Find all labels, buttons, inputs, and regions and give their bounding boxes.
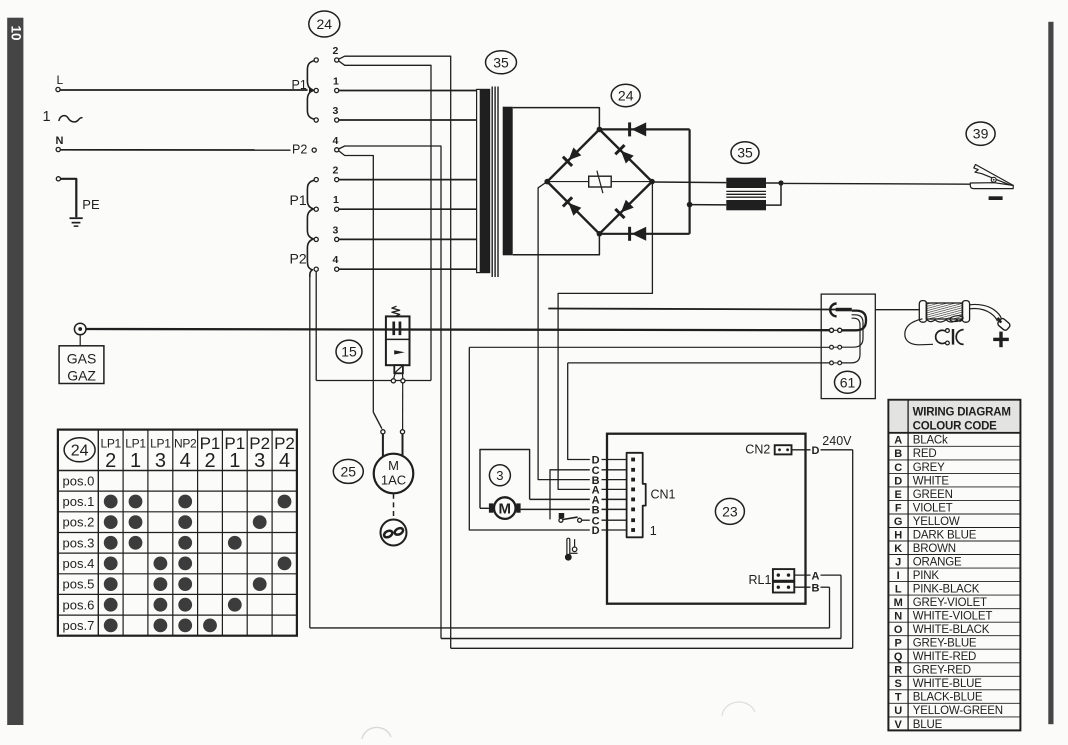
svg-text:3: 3 (155, 450, 166, 472)
wire torch lead (875, 309, 921, 311)
valve solenoid coil (394, 365, 403, 373)
wire secondary top to rectifier (513, 108, 600, 130)
fan motor connector pins (381, 430, 385, 434)
svg-text:pos.0: pos.0 (63, 473, 95, 488)
svg-text:P2: P2 (290, 251, 307, 267)
svg-text:23: 23 (722, 503, 738, 519)
wire A1 black (558, 184, 652, 489)
svg-text:PE: PE (82, 197, 100, 212)
svg-text:RL1: RL1 (749, 573, 772, 587)
svg-text:P1: P1 (292, 78, 307, 92)
switch P2 terminal (312, 148, 316, 152)
page number sidebar (7, 18, 23, 725)
wire to fan motor (switched) (373, 412, 382, 429)
torch cable bundle (842, 311, 866, 331)
svg-text:1: 1 (130, 450, 141, 472)
svg-text:S: S (895, 678, 902, 690)
svg-text:pos.4: pos.4 (63, 556, 95, 571)
wire contact 2' to transformer tap (339, 179, 477, 181)
wire bridge DC link (547, 181, 589, 183)
svg-text:24: 24 (618, 88, 634, 104)
wire RL1-B (794, 586, 810, 588)
svg-text:pos.5: pos.5 (63, 577, 95, 592)
wire trigger row3 (469, 346, 829, 348)
svg-text:Q: Q (894, 651, 903, 663)
wire feed motor loop (480, 450, 530, 509)
svg-text:1: 1 (229, 450, 240, 472)
choke L1 lower winding (726, 200, 766, 210)
wire contact 2 lower branch to gas valve loop (339, 61, 431, 381)
wire bus contact4 to RL1-A (441, 638, 841, 640)
svg-text:COLOUR CODE: COLOUR CODE (913, 420, 998, 432)
svg-text:3: 3 (254, 450, 265, 472)
transformer T1 secondary winding (503, 107, 513, 256)
wire B1 red (538, 182, 590, 480)
wire contact 4 upper branch to relay bus riser (339, 146, 441, 639)
svg-text:H: H (894, 529, 902, 541)
svg-text:GREEN: GREEN (913, 489, 953, 501)
svg-text:61: 61 (840, 374, 856, 390)
wire C2 grey (582, 519, 590, 521)
wire contact 2 upper branch to bus D riser (339, 56, 451, 648)
switch P1 terminals (314, 58, 318, 62)
svg-text:G: G (894, 516, 903, 528)
wire N to switch P2 (60, 149, 290, 151)
transformer core (491, 87, 493, 278)
svg-text:U: U (894, 705, 902, 717)
wire RL1-A (794, 574, 810, 576)
wire valve loop bottom (316, 380, 431, 382)
svg-text:pos.2: pos.2 (63, 515, 95, 530)
svg-text:D: D (592, 525, 600, 537)
svg-text:GREY-BLUE: GREY-BLUE (913, 638, 977, 650)
svg-text:GREY-RED: GREY-RED (913, 665, 971, 677)
motor M2 (wire feed) (494, 497, 516, 519)
svg-text:3: 3 (496, 468, 503, 483)
svg-text:4: 4 (180, 450, 191, 472)
diode D5 (top rail) (628, 122, 631, 136)
ground symbol (70, 217, 83, 219)
wire contact 1' to transformer tap (339, 208, 477, 210)
thermal cutout switch (559, 513, 565, 518)
choke core lines (726, 190, 766, 192)
motor M1 1AC (374, 454, 414, 494)
valve seat bars (392, 322, 395, 336)
wire DC output to choke lower winding (690, 204, 727, 206)
svg-text:N: N (56, 135, 64, 147)
svg-text:pos.3: pos.3 (63, 535, 95, 550)
svg-text:RED: RED (913, 448, 937, 460)
wire D2 white (469, 347, 590, 530)
fan motor leads (382, 434, 384, 458)
wire bridge output rail (688, 129, 690, 233)
svg-text:39: 39 (973, 126, 989, 142)
svg-text:GREY: GREY (913, 462, 945, 474)
ref 24 (table) (64, 438, 95, 462)
rectifier bridge edges (547, 129, 599, 181)
torch trigger ring (950, 315, 964, 322)
svg-text:BROWN: BROWN (913, 543, 956, 555)
svg-text:WHITE-RED: WHITE-RED (913, 651, 976, 663)
svg-text:LP1: LP1 (125, 437, 146, 451)
valve coil terminals (394, 373, 396, 378)
svg-text:WIRING DIAGRAM: WIRING DIAGRAM (913, 406, 1011, 418)
torch trigger switch (936, 330, 946, 343)
node bridge bottom (597, 231, 603, 237)
ref 23 (control board) (715, 498, 744, 524)
svg-text:M: M (499, 501, 512, 518)
wire C1 grey (550, 470, 590, 520)
svg-text:B: B (894, 448, 902, 460)
svg-text:P: P (895, 638, 902, 650)
torch handle (919, 301, 926, 323)
wire contact 4' to transformer tap (339, 268, 477, 270)
wire trigger row4 (568, 362, 830, 364)
svg-text:4: 4 (333, 135, 339, 147)
torch connector pins (832, 329, 840, 331)
ref 61 (torch connector) (835, 371, 861, 393)
svg-text:pos.7: pos.7 (63, 618, 95, 633)
varistor RV1 (589, 176, 612, 187)
thermometer symbol (567, 538, 570, 554)
ref 15 (gas valve) (336, 340, 362, 363)
svg-text:NP2: NP2 (174, 437, 197, 451)
svg-text:4: 4 (333, 254, 339, 266)
wire choke lower out (766, 183, 781, 205)
wire to work clamp (784, 182, 971, 185)
transformer T1 primary winding (477, 89, 490, 272)
svg-text:D: D (812, 445, 820, 457)
svg-text:BLACk: BLACk (913, 435, 948, 447)
svg-text:CN2: CN2 (745, 443, 770, 457)
svg-text:2: 2 (333, 165, 339, 177)
svg-text:M: M (894, 597, 903, 609)
node choke feed (687, 202, 693, 208)
wire secondary bottom to rectifier (513, 234, 600, 255)
svg-text:N: N (894, 611, 902, 623)
svg-text:10: 10 (8, 25, 23, 40)
scan artifact arc (362, 727, 391, 739)
node choke output (778, 180, 783, 185)
control PCB 23 outline (607, 434, 806, 604)
diode D1 (top-left arm) (569, 148, 582, 161)
torch connector box 61 (821, 294, 875, 399)
ref 24 (rectifier) (611, 84, 640, 106)
svg-text:P1: P1 (290, 192, 307, 208)
svg-text:1AC: 1AC (381, 473, 406, 488)
gas valve Y1 body (386, 316, 410, 365)
svg-text:24: 24 (317, 16, 333, 32)
svg-text:3: 3 (333, 224, 339, 236)
wire D1 white (568, 363, 590, 460)
svg-text:35: 35 (493, 54, 509, 70)
svg-text:4: 4 (279, 450, 290, 472)
wire switch tail to relay bus (309, 277, 311, 628)
svg-text:K: K (894, 543, 902, 555)
wire gas inlet stub (79, 335, 81, 346)
valve flow arrow (394, 350, 405, 354)
choke L1 upper winding (726, 178, 766, 188)
torch grip scallops (927, 319, 963, 322)
switch terminals (lower selector) (314, 178, 318, 182)
svg-text:A: A (894, 435, 902, 447)
wire contact 4 lower branch to fan motor (339, 151, 374, 413)
wire bridge top rail (599, 128, 689, 130)
CN1 pins (631, 458, 635, 462)
svg-text:LP1: LP1 (100, 437, 121, 451)
wire A2 black (530, 498, 590, 500)
wire contact 3 to transformer tap (339, 119, 477, 121)
wire valve to fan motor (402, 383, 404, 430)
svg-text:L: L (895, 584, 902, 596)
svg-text:M: M (388, 458, 399, 473)
wire choke upper out (766, 182, 781, 184)
svg-text:DARK BLUE: DARK BLUE (913, 529, 977, 541)
fan shaft (393, 494, 395, 519)
svg-text:LP1: LP1 (150, 437, 171, 451)
wire bus contact2 to 240V (451, 647, 853, 649)
torch gooseneck (970, 304, 1002, 318)
svg-text:2: 2 (105, 450, 116, 472)
svg-text:WHITE-BLACK: WHITE-BLACK (913, 624, 990, 636)
svg-text:25: 25 (341, 463, 357, 479)
table position dots (104, 495, 118, 509)
svg-text:1: 1 (333, 76, 339, 88)
svg-text:2: 2 (204, 450, 215, 472)
svg-text:T: T (895, 692, 902, 704)
negative polarity sign (989, 196, 1003, 200)
svg-text:WHITE: WHITE (913, 475, 950, 487)
ref 35 (transformer) (486, 51, 517, 74)
svg-text:BLACK-BLUE: BLACK-BLUE (913, 692, 983, 704)
svg-text:GREY-VIOLET: GREY-VIOLET (913, 597, 987, 609)
svg-text:V: V (895, 719, 903, 731)
GAS/GAZ box (59, 346, 104, 384)
wiring colour code table (888, 400, 1020, 731)
node bridge left (544, 179, 550, 185)
switch P1 wiper (upper selector) (307, 61, 314, 120)
svg-text:240V: 240V (822, 434, 852, 448)
svg-text:A: A (812, 570, 820, 582)
wire L to switch P1 (60, 89, 308, 91)
scan artifact arc (722, 702, 755, 716)
torch trigger leads (905, 319, 933, 345)
svg-text:1: 1 (650, 524, 657, 538)
wire CN2 to 240V (792, 449, 811, 451)
diode D4 (bottom-right arm) (621, 200, 634, 213)
svg-text:CN1: CN1 (651, 488, 676, 502)
svg-text:WHITE-BLUE: WHITE-BLUE (913, 678, 982, 690)
svg-text:PINK-BLACK: PINK-BLACK (913, 584, 980, 596)
svg-text:I: I (897, 570, 900, 582)
wire rectifier to choke (654, 181, 726, 184)
svg-text:3: 3 (333, 105, 339, 117)
node bridge right (649, 179, 655, 185)
wire PE (61, 179, 77, 218)
svg-text:pos.1: pos.1 (63, 494, 95, 509)
svg-text:L: L (57, 73, 64, 87)
valve spring (392, 306, 400, 316)
node bridge top (597, 127, 603, 133)
svg-text:P2: P2 (292, 143, 307, 157)
svg-text:1: 1 (43, 109, 51, 125)
gas / torch supply line (86, 329, 829, 330)
earth clamp symbol (970, 183, 1013, 189)
diode D2 (top-right arm) (621, 151, 634, 164)
svg-text:BLUE: BLUE (913, 719, 943, 731)
svg-text:D: D (894, 475, 902, 487)
wire B2 red (521, 508, 590, 510)
diode D6 (bottom rail) (628, 227, 631, 241)
svg-text:C: C (894, 462, 902, 474)
wire bus P2 to RL1-B (310, 627, 830, 629)
svg-text:B: B (812, 582, 820, 594)
wire bridge bottom rail (599, 233, 689, 235)
svg-text:15: 15 (341, 344, 357, 360)
torch cable socket (830, 304, 836, 317)
svg-text:pos.6: pos.6 (63, 597, 95, 612)
ref 35 (choke) (731, 142, 759, 164)
positive polarity sign (999, 332, 1002, 348)
connector CN1 housing (627, 453, 646, 538)
torch nozzle (997, 317, 1011, 331)
ref 3 (wire feed motor) (489, 465, 510, 486)
svg-text:2: 2 (333, 45, 339, 57)
wire contact 3' to transformer tap (339, 238, 477, 240)
fan symbol (381, 520, 407, 546)
gas inlet terminal (74, 323, 86, 335)
svg-text:J: J (895, 556, 901, 568)
svg-text:R: R (894, 665, 902, 677)
svg-text:WHITE-VIOLET: WHITE-VIOLET (913, 611, 993, 623)
right page edge bar (1048, 22, 1053, 724)
svg-text:GAS: GAS (67, 351, 97, 367)
svg-text:VIOLET: VIOLET (913, 502, 953, 514)
svg-text:F: F (895, 502, 902, 514)
svg-text:PINK: PINK (913, 570, 940, 582)
svg-text:24: 24 (71, 443, 89, 460)
svg-text:1: 1 (333, 194, 339, 206)
svg-text:O: O (894, 624, 903, 636)
ref 24 (switch assembly) (309, 11, 340, 37)
wire contact 1 to transformer tap (339, 90, 477, 92)
wire weld current to torch (548, 309, 836, 310)
terminal PE (56, 177, 60, 181)
svg-text:YELLOW: YELLOW (913, 516, 960, 528)
svg-text:YELLOW-GREEN: YELLOW-GREEN (913, 705, 1003, 717)
switch P1/P2 wiper (lower selector) (307, 180, 314, 277)
wire terminal 4 to gas valve loop (315, 271, 317, 380)
svg-text:35: 35 (737, 145, 753, 161)
diode D3 (bottom-left arm) (569, 203, 582, 216)
svg-text:E: E (895, 489, 902, 501)
wire 240V riser (852, 450, 854, 649)
svg-text:ORANGE: ORANGE (913, 556, 962, 568)
svg-text:GAZ: GAZ (67, 368, 96, 384)
ref 39 (work clamp) (966, 122, 995, 145)
switch position table (58, 430, 297, 636)
ref 25 (fan motor) (333, 459, 363, 483)
motor M2 brushes (489, 503, 494, 512)
